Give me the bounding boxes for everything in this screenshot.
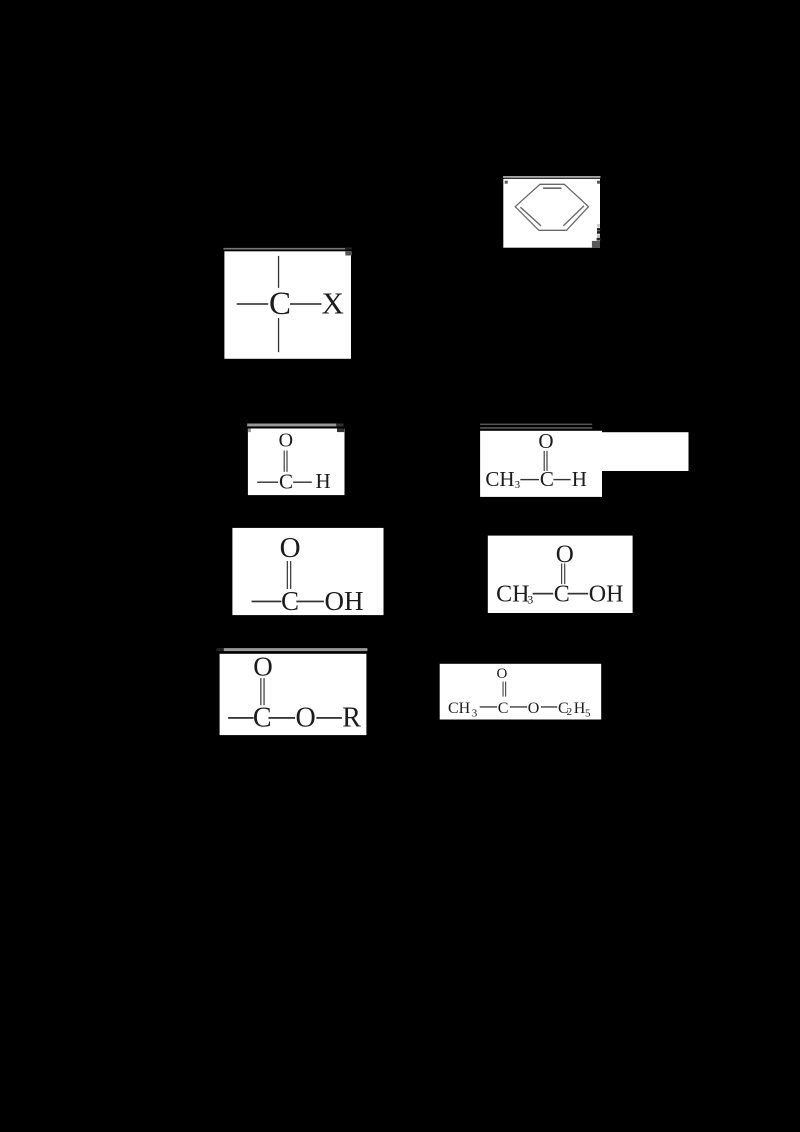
bond C to OH (acetic acid) <box>568 593 589 595</box>
bond left of C <box>237 303 269 305</box>
svg-text:3: 3 <box>527 593 533 607</box>
bond C to O (ester) <box>269 717 296 719</box>
bond CH3 to C (acetic acid) <box>533 593 554 595</box>
bond CH3 to C (ethyl acetate) <box>480 706 497 707</box>
benzene cell background <box>503 179 600 248</box>
bond C to H (aldehyde) <box>293 482 312 483</box>
ester cell background <box>220 654 367 735</box>
aldehyde cell top-left corner artifact <box>248 429 251 433</box>
bond C to X <box>290 303 322 305</box>
halogen cell background <box>224 251 351 358</box>
bond O to R (ester) <box>316 717 342 719</box>
svg-text:CH: CH <box>448 700 471 717</box>
ethyl acetate cell background <box>440 664 602 720</box>
C=O double bond (ester) <box>260 678 261 705</box>
bond O to C2H5 (ethyl acetate) <box>541 706 557 707</box>
ester cell top border dark left end <box>216 648 223 651</box>
bond below C (vertical) <box>278 318 279 352</box>
benzene cell top border <box>503 176 601 178</box>
svg-text:C: C <box>540 467 554 491</box>
svg-text:OH: OH <box>589 582 624 608</box>
benzene ring hexagon <box>515 184 588 230</box>
svg-text:O: O <box>497 666 508 682</box>
svg-text:H: H <box>572 467 587 491</box>
benzene double bond bottom-right <box>563 206 584 226</box>
bond above C (vertical) <box>278 256 279 288</box>
svg-text:3: 3 <box>515 479 521 491</box>
aldehyde cell top border <box>247 424 336 427</box>
svg-text:O: O <box>280 532 301 564</box>
svg-text:O: O <box>253 652 273 682</box>
bond C to H (acetaldehyde) <box>553 479 570 480</box>
svg-text:3: 3 <box>472 707 478 719</box>
svg-text:C: C <box>269 286 291 322</box>
svg-text:5: 5 <box>585 707 591 719</box>
C=O double bond (ethyl acetate) <box>503 682 504 697</box>
aldehyde cell top-right corner artifact <box>337 429 344 433</box>
benzene cell top-right corner artifact <box>597 181 600 184</box>
bond C to OH (carboxyl) <box>296 601 324 603</box>
benzene cell bottom-right corner artifact <box>592 241 600 248</box>
carboxyl cell background <box>232 528 383 615</box>
C=O double bond (acetic acid) <box>561 564 562 585</box>
svg-text:C: C <box>279 470 293 494</box>
C=O double bond (aldehyde) <box>284 451 285 472</box>
bond C to O (ethyl acetate) <box>510 706 527 707</box>
benzene cell right-edge artifact stack <box>597 224 600 228</box>
halogen cell top border dark right end <box>345 247 352 249</box>
bond left of C (carboxyl) <box>252 601 282 603</box>
halogen cell top-right corner artifact <box>345 251 352 255</box>
svg-text:C: C <box>554 582 570 608</box>
ester cell top border <box>224 648 368 651</box>
svg-text:C: C <box>498 700 509 717</box>
svg-text:O: O <box>296 703 316 734</box>
acetaldehyde cell top double border <box>480 424 592 426</box>
svg-text:CH: CH <box>485 467 514 491</box>
aldehyde cell top border dark right end <box>336 424 343 427</box>
bond left of C (aldehyde) <box>257 482 278 483</box>
aldehyde cell background <box>248 429 345 496</box>
benzene double bond bottom-left <box>520 207 541 226</box>
svg-text:OH: OH <box>325 586 364 616</box>
svg-text:O: O <box>279 430 293 452</box>
benzene cell top-left corner artifact <box>505 181 508 184</box>
svg-text:2: 2 <box>567 706 573 718</box>
svg-text:H: H <box>574 700 586 717</box>
benzene double bond top <box>543 187 562 189</box>
C=O double bond (carboxyl) <box>287 561 288 589</box>
halogen cell top border <box>223 248 345 250</box>
bond left of C (ester) <box>228 717 254 719</box>
svg-text:X: X <box>322 286 344 321</box>
svg-text:O: O <box>528 700 540 717</box>
svg-text:CH: CH <box>496 582 529 608</box>
svg-text:R: R <box>342 703 361 734</box>
acetic acid cell background <box>488 536 633 613</box>
svg-text:O: O <box>538 429 553 453</box>
acetaldehyde cell background <box>480 431 602 497</box>
acetaldehyde cell right extension background <box>592 432 689 471</box>
bond CH3 to C (acetaldehyde) <box>520 479 539 480</box>
C=O double bond (acetaldehyde) <box>544 451 545 471</box>
svg-text:H: H <box>316 469 331 493</box>
